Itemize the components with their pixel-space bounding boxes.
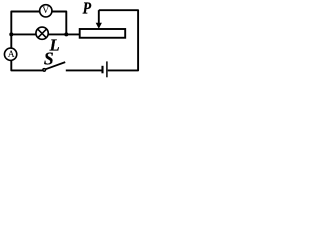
ammeter A1: circle [4, 48, 16, 60]
voltmeter U1: circle [40, 5, 52, 17]
junction node right of lamp [64, 32, 68, 36]
wire lamp row from left rail to rheostat [11, 33, 80, 35]
rheostat P: resistor body [80, 29, 126, 38]
svg-text:V: V [42, 6, 49, 16]
wire rheostat wiper stem [98, 10, 100, 23]
wire bottom from switch blade to battery [66, 69, 102, 71]
switch S: blade [46, 62, 65, 69]
battery cell: short negative plate [101, 66, 103, 74]
wire top-left corner with voltmeter branch [11, 12, 66, 35]
wire left rail down through ammeter to bottom-left corner, to switch pivot [11, 34, 42, 70]
svg-text:S: S [44, 49, 54, 69]
svg-text:P: P [82, 0, 92, 18]
battery cell: long positive plate [106, 61, 108, 77]
svg-text:A: A [8, 50, 15, 60]
wire from battery up the right rail to rheostat top wire [99, 10, 138, 70]
lamp L: circle with X [36, 27, 48, 39]
switch S: pivot circle [43, 69, 46, 72]
rheostat wiper arrowhead [96, 23, 102, 29]
junction node on left rail [9, 32, 13, 36]
